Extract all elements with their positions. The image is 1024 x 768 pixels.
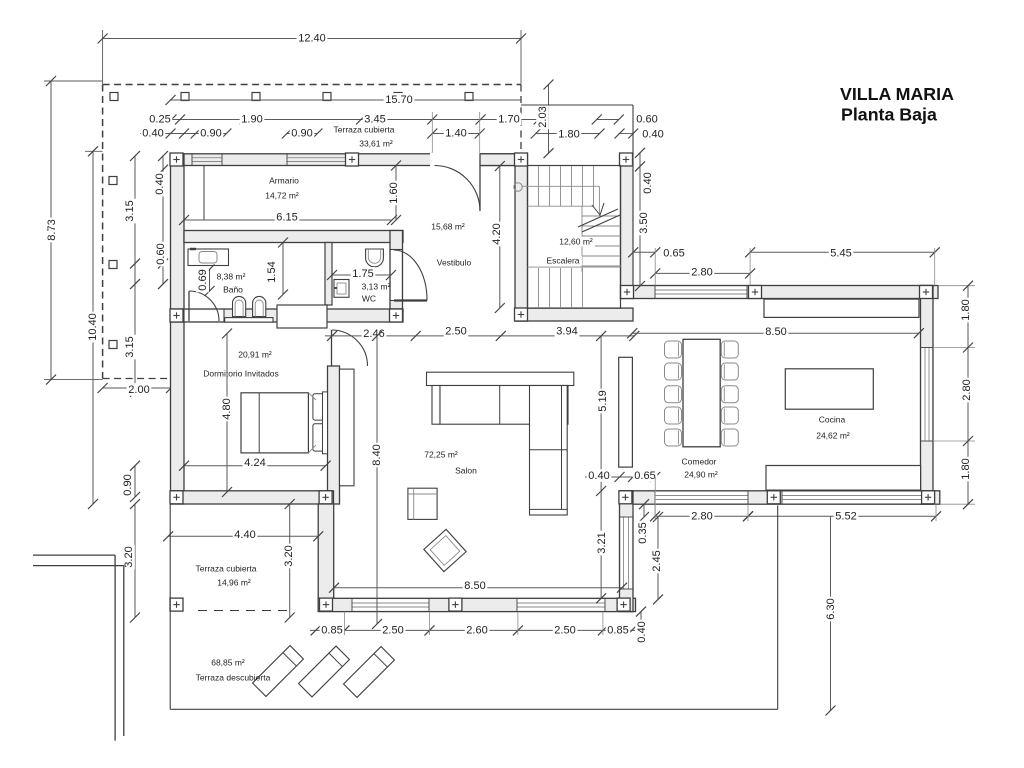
stairs handrail [522, 185, 599, 187]
svg-text:1.54: 1.54 [266, 261, 278, 282]
dim 15.70 porch line [171, 99, 522, 101]
svg-text:2.50: 2.50 [554, 624, 575, 636]
armario wardrobe line + divider [203, 166, 205, 220]
sofa L-shaped [427, 372, 574, 385]
svg-text:0.69: 0.69 [197, 269, 209, 290]
escalera block outline top [521, 104, 633, 106]
svg-text:Dormitorio Invitados: Dormitorio Invitados [203, 368, 279, 378]
dim 0.90 left salon [134, 466, 136, 497]
svg-text:1.80: 1.80 [558, 128, 579, 140]
dim 0.40 salon south wall [640, 612, 642, 626]
dim 4.24 dormitorio [184, 465, 326, 467]
svg-text:8.73: 8.73 [46, 219, 58, 240]
svg-text:2.60: 2.60 [466, 624, 487, 636]
kitchen island [785, 369, 873, 409]
svg-text:5.19: 5.19 [597, 390, 609, 411]
svg-text:24,90 m²: 24,90 m² [684, 469, 718, 479]
wall kitchen/comedor south [620, 491, 940, 504]
svg-text:2.80: 2.80 [691, 510, 712, 522]
dim 1.75 WC [332, 274, 391, 276]
dim 4.80 dormitorio [226, 334, 228, 493]
svg-text:Planta Baja: Planta Baja [841, 105, 937, 125]
svg-text:4.80: 4.80 [221, 398, 233, 419]
dim 3.20 left terrace [134, 504, 136, 618]
svg-text:33,61 m²: 33,61 m² [359, 138, 393, 148]
svg-text:2.03: 2.03 [537, 106, 549, 127]
svg-text:Salon: Salon [455, 465, 477, 475]
svg-text:3.94: 3.94 [556, 325, 577, 337]
comedor west window [621, 517, 632, 589]
svg-text:0.90: 0.90 [200, 127, 221, 139]
svg-text:0.40: 0.40 [642, 172, 654, 193]
dim 1.60 armario depth [395, 166, 397, 221]
kitchen counter south [766, 466, 921, 491]
svg-text:0.25: 0.25 [149, 113, 170, 125]
svg-text:1.90: 1.90 [241, 113, 262, 125]
svg-text:24,62 m²: 24,62 m² [816, 430, 850, 440]
dim col x135: 3.15 0.60 3.15 [134, 156, 136, 392]
svg-text:3.20: 3.20 [283, 545, 295, 566]
svg-text:2.80: 2.80 [961, 379, 973, 400]
svg-text:1.40: 1.40 [445, 127, 466, 139]
shower tray [277, 305, 327, 328]
wall top right segment vestibulo [480, 154, 515, 166]
wall dormitorio south [171, 491, 334, 504]
extension lines door jambs [431, 112, 433, 154]
dim row vestibulo 2.46 2.50 3.94 [325, 335, 634, 337]
svg-text:0.40: 0.40 [588, 470, 609, 482]
dim 8.50 salon south [334, 587, 622, 589]
porch posts top row [110, 93, 118, 101]
dim 8.50 kitchen [632, 332, 919, 334]
bano bench bar [225, 318, 273, 323]
dim 5.19 3.21 comedor west [600, 336, 602, 598]
dim row y133.5: 0.40 0.90 0.90 1.40 1.80 0.40 [140, 133, 226, 135]
dim 0.69 bano [209, 269, 211, 291]
svg-text:0.90: 0.90 [122, 474, 134, 495]
bed headboard [323, 392, 328, 454]
bed [241, 393, 308, 453]
svg-text:10.40: 10.40 [87, 313, 99, 341]
terraza cubierta open edge dashed [198, 610, 292, 612]
svg-text:3.21: 3.21 [596, 532, 608, 553]
svg-text:1.80: 1.80 [960, 299, 972, 320]
svg-text:0.85: 0.85 [607, 624, 628, 636]
bottom row extension lines [344, 612, 346, 635]
terrace boundary lines [169, 504, 171, 709]
stairs escalera outline [528, 166, 621, 309]
svg-text:Cocina: Cocina [819, 414, 846, 424]
svg-text:0.60: 0.60 [636, 113, 657, 125]
coffee table [408, 488, 437, 519]
side table rotated [424, 529, 466, 571]
svg-text:0.85: 0.85 [321, 624, 342, 636]
dim 8.40 salon west [376, 336, 378, 624]
stairs top flight steps [538, 166, 540, 206]
stairs bottom flight steps [528, 266, 621, 268]
svg-text:4.20: 4.20 [491, 223, 503, 244]
svg-text:Terraza cubierta: Terraza cubierta [196, 563, 257, 573]
svg-text:0.40: 0.40 [154, 173, 166, 194]
salon south windows [352, 600, 429, 611]
dim 4.20 vestibulo [499, 166, 501, 308]
svg-text:8.50: 8.50 [464, 580, 485, 592]
wall salon west (terraza east) [318, 504, 334, 611]
wall salon south [318, 598, 635, 611]
kitchen counter north [764, 299, 919, 317]
wall kitchen north [633, 286, 938, 299]
sun loungers [253, 646, 304, 697]
svg-text:4.24: 4.24 [244, 457, 265, 469]
svg-text:14,96 m²: 14,96 m² [217, 577, 251, 587]
svg-text:0.65: 0.65 [663, 247, 684, 259]
svg-text:Vestibulo: Vestibulo [437, 257, 472, 267]
dining chairs [665, 341, 682, 358]
pillars (square with plus) [170, 153, 183, 166]
svg-text:4.40: 4.40 [234, 529, 255, 541]
kitchen top extension lines [632, 154, 634, 286]
door bano [189, 291, 219, 321]
svg-text:3.20: 3.20 [123, 546, 135, 567]
WC sink [334, 280, 349, 298]
dim 0.60 escalera top [597, 119, 619, 121]
svg-text:Comedor: Comedor [682, 456, 717, 466]
svg-text:2.45: 2.45 [651, 550, 663, 571]
dim 8.73 far left [44, 80, 103, 82]
stairs right flight steps [582, 215, 621, 217]
svg-text:Escalera: Escalera [546, 255, 579, 265]
dim row bottom 0.85 2.50 2.60 2.50 0.85 [310, 629, 635, 631]
wall escalera south [515, 308, 633, 321]
svg-text:14,72 m²: 14,72 m² [265, 190, 299, 200]
bano toilet pair [233, 296, 246, 316]
wall escalera west [515, 154, 528, 321]
svg-text:3.50: 3.50 [638, 212, 650, 233]
svg-text:12,60 m²: 12,60 m² [559, 236, 593, 246]
wall armario south (0.60 interior) [184, 231, 403, 243]
svg-text:20,91 m²: 20,91 m² [238, 349, 272, 359]
dashed boundary covered front terrace [103, 84, 521, 86]
bano vanity sink [188, 249, 229, 266]
wall west exterior [171, 154, 185, 504]
svg-text:5.45: 5.45 [830, 247, 851, 259]
wall escalera east [621, 154, 634, 299]
dim col x163: 0.40 0.60 [162, 156, 164, 284]
property boundary bottom left [33, 554, 115, 556]
dim 1.54 bano [282, 243, 284, 295]
svg-text:1.75: 1.75 [352, 268, 373, 280]
svg-text:Baño: Baño [223, 284, 243, 294]
dim 4.40 terraza cubierta [168, 535, 318, 537]
wall comedor west [620, 491, 634, 612]
dim 0.65 and 5.45 kitchen top [633, 251, 655, 253]
svg-text:0.40: 0.40 [642, 128, 663, 140]
svg-text:0.35: 0.35 [637, 522, 649, 543]
kitchen east window [922, 348, 932, 442]
dim 0.40 0.65 salon east [585, 476, 655, 478]
wall top exterior (armario/vestibulo north) [171, 154, 516, 166]
dim 2.00 left bottom [103, 387, 171, 389]
svg-text:3,13 m²: 3,13 m² [362, 281, 391, 291]
svg-text:15,68 m²: 15,68 m² [431, 221, 465, 231]
svg-text:Terraza descubierta: Terraza descubierta [196, 672, 271, 682]
svg-text:2.80: 2.80 [691, 266, 712, 278]
dim 3.20 terraza right [289, 504, 291, 618]
svg-text:0.90: 0.90 [291, 127, 312, 139]
stairs direction arrow [578, 209, 618, 227]
wall middle horizontal (bano south / dorm north) [171, 309, 404, 322]
kitchen north window [655, 287, 747, 298]
wall kitchen east [921, 286, 934, 505]
svg-text:3.15: 3.15 [124, 336, 136, 357]
front door opening gap [430, 153, 480, 167]
door front entry (vestibulo) [435, 166, 481, 212]
svg-text:68,85 m²: 68,85 m² [211, 657, 245, 667]
bed pillows [313, 394, 325, 420]
wall dormitorio east [328, 366, 340, 504]
dim row y120: 0.25 1.90 3.45 1.70 [150, 119, 539, 121]
svg-text:0.40: 0.40 [142, 127, 163, 139]
window glazing top wall segments [192, 157, 222, 159]
dim 0.40 and 3.50 escalera east [639, 153, 641, 167]
svg-text:WC: WC [362, 293, 376, 303]
door dormitorio [332, 330, 368, 366]
svg-text:5.52: 5.52 [835, 510, 856, 522]
wall vestibulo west (WC east) [390, 231, 403, 310]
svg-text:15.70: 15.70 [385, 94, 413, 106]
dim 2.03 vertical [548, 85, 550, 154]
svg-text:1.80: 1.80 [960, 458, 972, 479]
svg-text:2.50: 2.50 [445, 325, 466, 337]
salon shelving unit [340, 369, 355, 486]
kitchen south windows [655, 492, 748, 503]
svg-text:VILLA MARIA: VILLA MARIA [840, 84, 954, 104]
dim 10.40 left [85, 150, 103, 152]
door WC to vestibulo [394, 250, 427, 301]
room label escalera [557, 237, 595, 247]
dim 0.35 2.45 comedor west wall [643, 504, 645, 517]
svg-text:0.60: 0.60 [155, 243, 167, 264]
svg-text:12.40: 12.40 [298, 32, 326, 44]
stairs newel circle [514, 183, 522, 191]
porch posts left column [109, 177, 117, 185]
svg-text:2.00: 2.00 [128, 384, 149, 396]
svg-text:2.50: 2.50 [382, 624, 403, 636]
dim 6.15 armario [184, 219, 392, 221]
svg-text:0.65: 0.65 [634, 470, 655, 482]
dim 2.80 5.52 bottom kitchen [655, 515, 748, 517]
svg-text:1.60: 1.60 [388, 182, 400, 203]
dining table [683, 339, 720, 447]
svg-text:1.70: 1.70 [498, 113, 519, 125]
svg-text:Armario: Armario [269, 175, 299, 185]
dim 12.40 overall top [102, 30, 104, 84]
svg-text:8.40: 8.40 [371, 444, 383, 465]
wall bano/WC divider [325, 243, 332, 306]
svg-text:8.50: 8.50 [765, 326, 786, 338]
dim 2.80 kitchen top [655, 272, 750, 274]
svg-text:6.15: 6.15 [276, 211, 297, 223]
svg-text:8,38 m²: 8,38 m² [217, 271, 246, 281]
svg-text:6.30: 6.30 [825, 598, 837, 619]
svg-text:3.15: 3.15 [124, 200, 136, 221]
dim 6.30 terrace east [830, 516, 832, 710]
svg-text:0.40: 0.40 [636, 621, 648, 642]
WC toilet [366, 249, 384, 267]
right side dims 1.80 2.80 1.80 [938, 285, 975, 287]
svg-text:Terraza cubierta: Terraza cubierta [334, 124, 395, 134]
svg-text:72,25 m²: 72,25 m² [424, 449, 458, 459]
comedor sideboard [619, 357, 633, 467]
